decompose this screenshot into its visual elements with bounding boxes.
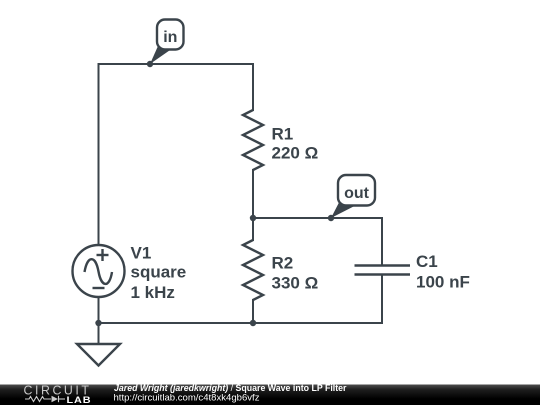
wire: V1 bottom lead	[98, 297, 100, 324]
wire: bottom horizontal (ground net)	[99, 322, 383, 324]
wire: ground stub	[98, 323, 100, 344]
svg-text:Jared Wright (jaredkwright) /: Jared Wright (jaredkwright) / Square Wav…	[114, 383, 347, 393]
node: R2 bottom junction	[250, 320, 256, 326]
svg-text:out: out	[344, 185, 370, 202]
svg-text:http://circuitlab.com/c4t8xk4g: http://circuitlab.com/c4t8xk4gb6vfz	[114, 393, 260, 403]
wire: left vertical (in net to V1 top)	[98, 64, 100, 246]
wire: R1 top lead	[252, 64, 254, 110]
svg-text:100 nF: 100 nF	[416, 273, 470, 292]
flag "in"	[150, 20, 184, 65]
wire: C1 top lead	[381, 218, 383, 266]
svg-text:V1: V1	[131, 243, 152, 262]
svg-text:in: in	[163, 29, 177, 46]
CircuitLab logo wordmark	[24, 384, 92, 405]
node: in flag junction	[147, 61, 153, 67]
flag "out"	[331, 175, 375, 218]
wire: R2 bottom lead	[252, 300, 254, 323]
svg-text:330 Ω: 330 Ω	[272, 274, 319, 293]
resistor R2	[243, 240, 263, 300]
wire: top horizontal (in net)	[99, 63, 254, 65]
node: V1/ground junction	[95, 320, 101, 326]
svg-text:square: square	[131, 263, 187, 282]
wire: out horizontal	[253, 217, 382, 219]
wire: R1 bottom lead	[252, 170, 254, 218]
ground	[77, 344, 120, 366]
node: out flag junction	[328, 215, 334, 221]
svg-text:1 kHz: 1 kHz	[131, 283, 175, 302]
logo resistor-diode glyph	[25, 396, 65, 402]
svg-text:C1: C1	[416, 252, 438, 271]
svg-text:R2: R2	[272, 254, 294, 273]
footer bar	[0, 385, 540, 405]
svg-text:220 Ω: 220 Ω	[272, 144, 319, 163]
svg-text:R1: R1	[272, 125, 294, 144]
resistor R1	[243, 110, 263, 170]
svg-text:LAB: LAB	[67, 395, 92, 405]
capacitor C1	[355, 266, 411, 275]
wire: C1 bottom lead	[381, 275, 383, 324]
node: R1/R2/out junction	[250, 215, 256, 221]
wire: R2 top lead	[252, 218, 254, 240]
voltage source V1	[73, 245, 125, 297]
